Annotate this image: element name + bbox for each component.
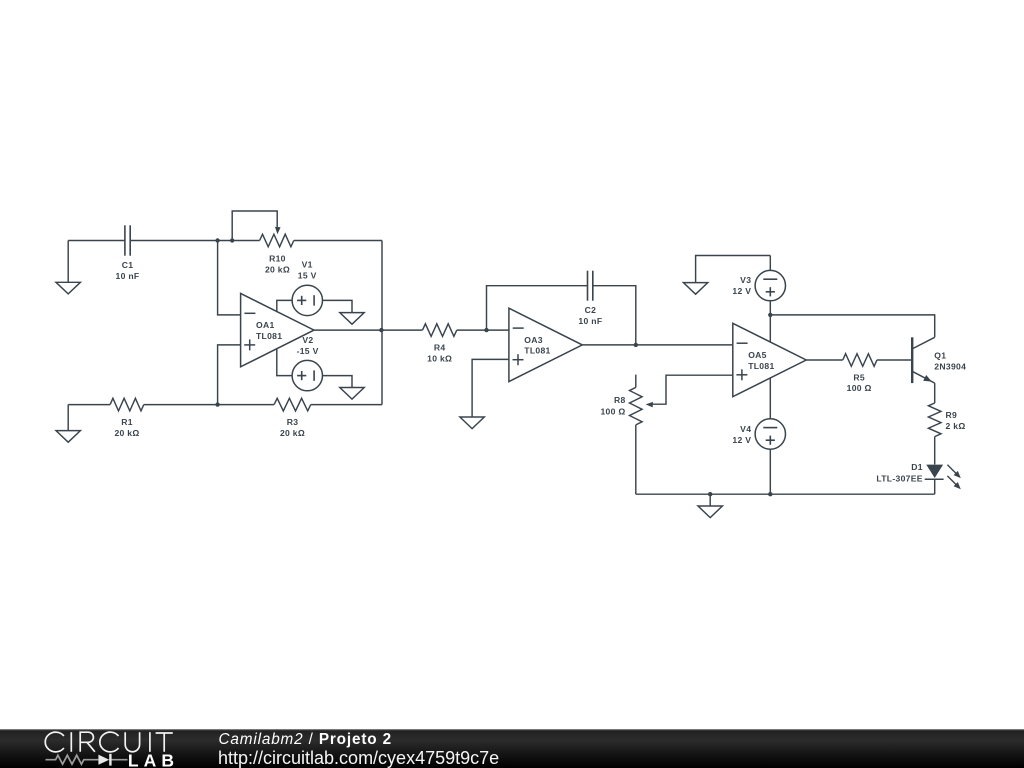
svg-text:OA3: OA3 (524, 335, 543, 345)
wire R10 to feedback rail (294, 240, 382, 242)
svg-text:LAB: LAB (128, 751, 179, 768)
op-amp OA5 (733, 323, 806, 396)
capacitor C2 (578, 271, 602, 326)
wire node A to OA1 inverting input (218, 241, 241, 315)
svg-text:R8: R8 (614, 395, 626, 405)
svg-text:D1: D1 (911, 462, 923, 472)
svg-text:10 kΩ: 10 kΩ (427, 354, 452, 364)
wire C1 to node A (130, 240, 259, 242)
svg-text:V2: V2 (302, 335, 313, 345)
wire feedback rail vertical (381, 241, 383, 405)
svg-text:R5: R5 (853, 372, 865, 382)
svg-text:TL081: TL081 (256, 331, 282, 341)
resistor R1 (110, 398, 144, 438)
svg-text:OA5: OA5 (748, 350, 767, 360)
wire V4 to bottom rail (769, 449, 771, 494)
voltage source V1 (292, 260, 322, 316)
svg-text:http://circuitlab.com/cyex4759: http://circuitlab.com/cyex4759t9c7e (218, 748, 499, 768)
svg-text:R9: R9 (946, 410, 958, 420)
svg-text:12 V: 12 V (732, 286, 751, 296)
resistor R8 (pot) (600, 387, 642, 425)
svg-text:10 nF: 10 nF (116, 271, 140, 281)
wire V1 to ground (323, 300, 353, 312)
node OA3 feedback (484, 328, 488, 332)
svg-text:15 V: 15 V (298, 270, 317, 280)
ground V1 (340, 313, 364, 325)
wire OA1 V+ pin (277, 300, 292, 311)
svg-text:20 kΩ: 20 kΩ (265, 264, 290, 274)
node OA3 output (634, 343, 638, 347)
svg-text:TL081: TL081 (524, 346, 550, 356)
wire V3 to ground (696, 256, 771, 283)
svg-text:10 nF: 10 nF (578, 316, 602, 326)
svg-text:-15 V: -15 V (297, 346, 319, 356)
logo text LAB (128, 751, 179, 768)
footer bar (0, 729, 1024, 768)
svg-text:R10: R10 (269, 254, 286, 264)
resistor R3 (274, 398, 311, 438)
wire R8 wiper to OA5 non-inverting input (651, 375, 733, 404)
node OA1 output (379, 328, 383, 332)
wire OA5 V- pin (769, 378, 771, 419)
wire ground stem bottom (709, 494, 711, 506)
resistor R10 (pot) (260, 234, 294, 274)
ground V2 (340, 388, 364, 400)
wire Q1 emitter to R9 (934, 383, 936, 403)
node B (230, 238, 234, 242)
wire OA1 output (314, 329, 423, 331)
ground input (56, 241, 80, 294)
svg-text:LTL-307EE: LTL-307EE (876, 474, 922, 484)
svg-text:2 kΩ: 2 kΩ (946, 421, 966, 431)
wire C2 feedback right (593, 286, 636, 345)
op-amp OA3 (509, 308, 582, 381)
node V4 bottom (768, 492, 772, 496)
svg-text:2N3904: 2N3904 (934, 362, 966, 372)
voltage source V4 (732, 419, 785, 449)
transistor Q1 (912, 337, 966, 383)
wiper arrow R10 (275, 227, 281, 234)
logo resistor-diode symbol (46, 755, 128, 764)
wire node C to OA1 non-inverting input (218, 345, 241, 405)
wire OA3 output to OA5 (582, 344, 733, 346)
svg-text:V1: V1 (302, 260, 313, 270)
footer title Camilabm2 / Projeto 2 (219, 731, 392, 748)
wire R10 wiper loop (232, 211, 277, 241)
ground bottom rail (698, 506, 722, 518)
wiper arrow R8 (646, 402, 653, 408)
wire input top-left (68, 240, 125, 242)
wire bottom rail (636, 493, 935, 495)
svg-text:100 Ω: 100 Ω (600, 406, 625, 416)
svg-text:Camilabm2 / Projeto 2: Camilabm2 / Projeto 2 (219, 731, 392, 748)
svg-text:100 Ω: 100 Ω (847, 383, 872, 393)
ground R1 (56, 405, 80, 443)
voltage source V3 (732, 270, 785, 300)
capacitor C1 (116, 225, 140, 281)
svg-text:R3: R3 (287, 417, 299, 427)
CircuitLab logo text CIRCUIT (45, 732, 173, 752)
svg-text:TL081: TL081 (748, 361, 774, 371)
svg-text:V3: V3 (740, 275, 751, 285)
wire R8 bottom (635, 425, 637, 494)
LED D1 (876, 462, 960, 489)
resistor R9 (928, 403, 965, 437)
wire R9 to D1 (934, 437, 936, 465)
svg-text:R4: R4 (434, 343, 446, 353)
wire R1 to node C (144, 404, 274, 406)
svg-text:OA1: OA1 (256, 320, 275, 330)
wire V3 top lead (769, 256, 771, 271)
svg-text:C2: C2 (585, 305, 597, 315)
wire V3 to OA5 V+ pin (769, 301, 771, 342)
resistor R4 (423, 324, 457, 364)
node bottom ground (708, 492, 712, 496)
ground OA3 (460, 417, 484, 429)
svg-text:20 kΩ: 20 kΩ (280, 428, 305, 438)
wire V2 to ground (323, 376, 353, 388)
node C (215, 402, 219, 406)
op-amp OA1 (241, 293, 314, 366)
wire R3 to feedback rail (311, 404, 382, 406)
ground V3 (683, 283, 707, 295)
resistor R5 (806, 354, 912, 394)
wire R4 to OA3 inverting input (457, 329, 509, 331)
wire C2 feedback left (487, 286, 588, 330)
svg-text:R1: R1 (121, 417, 133, 427)
wire D1 to bottom rail (934, 479, 936, 494)
wire collector rail (770, 315, 934, 337)
svg-text:V4: V4 (740, 424, 751, 434)
footer url (218, 748, 499, 768)
node A (215, 238, 219, 242)
wire R8 top stub (635, 375, 637, 388)
wire OA1 V- pin (277, 349, 292, 376)
wire ground to R1 (68, 404, 110, 406)
node V3 collector rail (768, 313, 772, 317)
svg-text:Q1: Q1 (934, 350, 946, 360)
wire OA3 non-inverting to ground (472, 359, 509, 417)
svg-text:12 V: 12 V (732, 435, 751, 445)
voltage source V2 (292, 335, 322, 391)
svg-text:C1: C1 (122, 260, 134, 270)
svg-text:20 kΩ: 20 kΩ (114, 428, 139, 438)
